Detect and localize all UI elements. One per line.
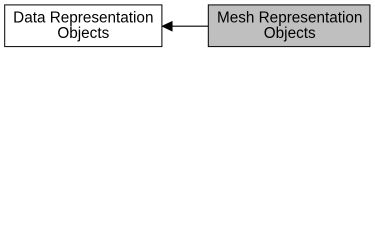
wire — [172, 25, 209, 27]
arrowhead — [162, 22, 172, 31]
node: Data Representation Objects — [5, 5, 162, 47]
edge: arrow from Mesh node to Data node — [162, 22, 208, 31]
svg-text:Objects: Objects — [57, 25, 109, 42]
svg-text:Objects: Objects — [264, 25, 316, 42]
node: Mesh Representation Objects — [208, 5, 370, 47]
